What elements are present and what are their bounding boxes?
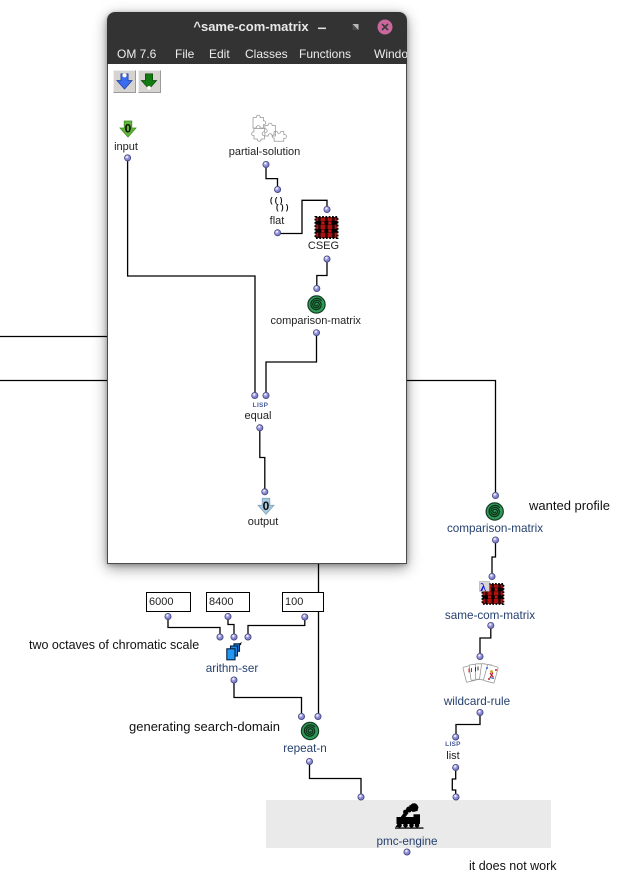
svg-text:()): ()) [275, 204, 289, 213]
svg-text:0: 0 [125, 122, 132, 136]
svg-text:0: 0 [263, 499, 270, 513]
svg-text:λ: λ [480, 580, 486, 594]
